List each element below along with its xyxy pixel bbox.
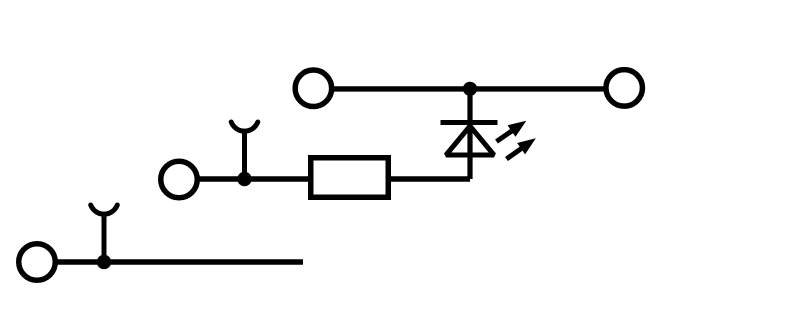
terminal circle: top-left clamp (295, 70, 332, 107)
LED emission arrow 2 (507, 138, 536, 159)
node: middle junction (237, 172, 251, 186)
LED D1 cathode bar (441, 120, 498, 125)
node: top junction (463, 82, 477, 96)
terminal circle: bottom-left clamp (19, 244, 56, 281)
terminal circle: top-right clamp (606, 70, 643, 107)
wire: bottom tap stem (102, 215, 107, 263)
LED D1 triangle (446, 126, 494, 155)
wire: top level conductor (332, 86, 607, 91)
LED emission arrow 1 (497, 121, 527, 142)
wire: bottom level conductor (55, 259, 303, 264)
wire: middle level conductor into resistor (197, 176, 311, 181)
test tap (socket fork) middle level (231, 122, 258, 131)
resistor R (311, 158, 389, 198)
terminal circle: middle-left clamp (161, 161, 198, 198)
node: bottom junction (97, 255, 111, 269)
test tap (socket fork) bottom level (91, 205, 118, 214)
wire: middle tap stem (242, 132, 247, 180)
wire: LED branch vertical (467, 89, 472, 179)
wire: resistor to LED branch (388, 176, 470, 181)
